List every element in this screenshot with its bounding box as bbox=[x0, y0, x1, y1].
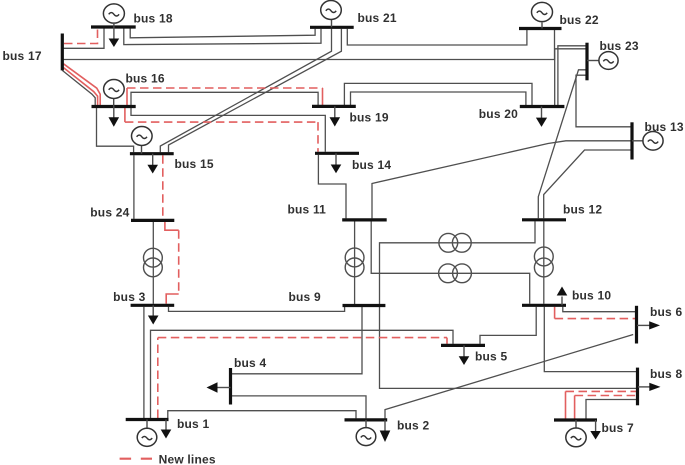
svg-text:bus 20: bus 20 bbox=[479, 107, 518, 121]
svg-text:bus 7: bus 7 bbox=[602, 421, 634, 435]
svg-text:bus 10: bus 10 bbox=[572, 289, 611, 303]
svg-text:bus 8: bus 8 bbox=[650, 367, 682, 381]
svg-text:bus 4: bus 4 bbox=[234, 356, 266, 370]
svg-text:bus 17: bus 17 bbox=[3, 49, 42, 63]
svg-text:bus 2: bus 2 bbox=[397, 419, 429, 433]
svg-text:bus 19: bus 19 bbox=[350, 111, 389, 125]
svg-text:bus 5: bus 5 bbox=[475, 350, 507, 364]
svg-text:bus 12: bus 12 bbox=[563, 203, 602, 217]
svg-text:bus 13: bus 13 bbox=[645, 120, 684, 134]
svg-text:bus 22: bus 22 bbox=[560, 13, 599, 27]
svg-text:bus 14: bus 14 bbox=[352, 158, 391, 172]
svg-text:bus 11: bus 11 bbox=[288, 203, 327, 217]
svg-text:bus 23: bus 23 bbox=[600, 39, 639, 53]
svg-text:bus 24: bus 24 bbox=[90, 206, 129, 220]
svg-text:bus 6: bus 6 bbox=[650, 305, 682, 319]
svg-text:bus 9: bus 9 bbox=[289, 290, 321, 304]
svg-text:bus 21: bus 21 bbox=[358, 11, 397, 25]
svg-text:bus 3: bus 3 bbox=[113, 290, 145, 304]
svg-text:bus 1: bus 1 bbox=[177, 417, 209, 431]
svg-text:bus 18: bus 18 bbox=[134, 11, 173, 25]
svg-text:bus 16: bus 16 bbox=[126, 72, 165, 86]
svg-text:New lines: New lines bbox=[159, 452, 216, 465]
svg-text:bus 15: bus 15 bbox=[175, 157, 214, 171]
